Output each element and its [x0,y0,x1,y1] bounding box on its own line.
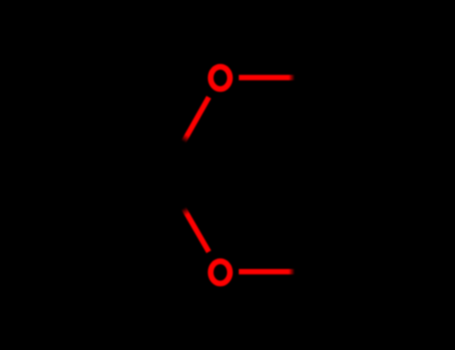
bond O1-C2 (top diagonal to central carbon, fades to black) [184,97,209,142]
bond O1-CH3 (top horizontal, methyl to the right) [239,75,295,80]
atom O3 (bottom oxygen label) [211,261,230,283]
bond C2-O3 (bottom diagonal from central carbon, fades to black) [184,208,209,252]
bond O3-CH3 (bottom horizontal, methyl to the right) [239,269,295,274]
atom O1 (top oxygen label) [211,67,230,89]
